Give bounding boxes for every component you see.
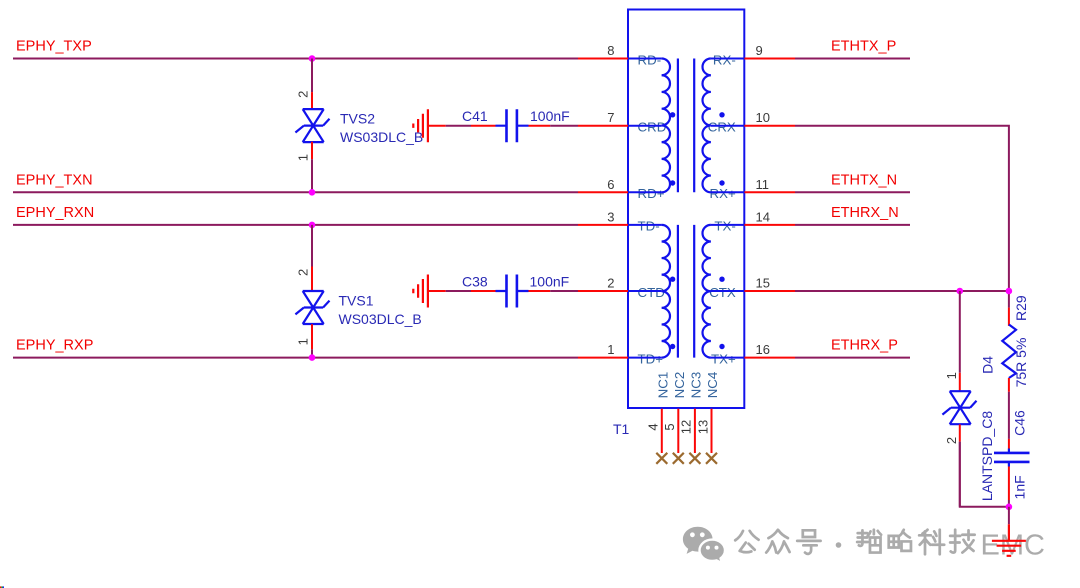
wire ETHTX_P — [795, 58, 910, 60]
svg-text:R29: R29 — [1013, 295, 1029, 321]
pin 7 of T1 — [578, 125, 628, 127]
chassis ground at C38 — [413, 275, 428, 308]
pin 6 of T1 — [578, 191, 628, 193]
svg-text:1: 1 — [944, 372, 959, 379]
svg-text:CRX: CRX — [708, 120, 736, 135]
junction node EPHY_TXN/TVS2 — [309, 189, 316, 196]
no-connect X on pin 12 — [689, 453, 700, 464]
capacitor C46 — [994, 453, 1030, 462]
polarity dot T1 — [719, 344, 724, 349]
pin 1 of T1 — [578, 357, 628, 359]
ground GND — [992, 524, 1026, 556]
corner pixel red — [0, 586, 1, 588]
svg-text:ETHTX_P: ETHTX_P — [831, 39, 896, 55]
polarity dot T1 — [670, 344, 675, 349]
wire pin10 to node A — [795, 126, 1009, 308]
TVS diode TVS1 — [295, 291, 329, 324]
winding TD (T1 left lower) — [662, 225, 670, 358]
pin 10 of T1 — [744, 125, 795, 127]
watermark text gongzhonghao taolue keji — [735, 530, 974, 554]
core of T1 upper — [678, 59, 694, 193]
svg-text:WS03DLC_B: WS03DLC_B — [339, 311, 422, 327]
svg-text:16: 16 — [756, 342, 770, 357]
svg-text:14: 14 — [756, 209, 770, 224]
svg-text:2: 2 — [296, 91, 311, 98]
resistor R29 — [1002, 325, 1016, 379]
corner pixel green — [1, 586, 2, 588]
wire R29-C46 — [1008, 392, 1010, 439]
pin 14 of T1 — [744, 224, 795, 226]
svg-text:1: 1 — [296, 154, 311, 161]
svg-text:NC4: NC4 — [705, 372, 720, 399]
svg-text:EPHY_TXN: EPHY_TXN — [16, 172, 93, 188]
svg-text:3: 3 — [607, 209, 614, 224]
wire TVS1 bottom — [311, 349, 313, 357]
svg-text:TVS2: TVS2 — [340, 111, 375, 127]
pin 13 of T1 (NC) — [711, 409, 713, 453]
svg-text:ETHTX_N: ETHTX_N — [831, 172, 897, 188]
svg-text:EPHY_TXP: EPHY_TXP — [16, 39, 92, 55]
svg-text:6: 6 — [607, 177, 614, 192]
pin 1 of R29 — [1008, 308, 1010, 326]
svg-text:CTX: CTX — [709, 285, 736, 300]
svg-text:9: 9 — [756, 43, 763, 58]
watermark wechat icon — [683, 527, 725, 564]
svg-text:RD+: RD+ — [638, 186, 665, 201]
svg-text:TD+: TD+ — [638, 351, 664, 366]
polarity dot T1 — [670, 112, 675, 117]
svg-text:D4: D4 — [980, 356, 996, 374]
svg-text:CRD: CRD — [638, 120, 667, 135]
polarity dot T1 — [670, 180, 675, 185]
polarity dot T1 — [719, 112, 724, 117]
wire ETHTX_N — [795, 191, 910, 193]
junction node EPHY_RXN/TVS1 — [309, 222, 316, 229]
pin 12 of T1 (NC) — [694, 409, 696, 453]
winding TX (T1 right lower) — [703, 225, 711, 358]
svg-text:TX+: TX+ — [711, 351, 736, 366]
wire D4 top — [959, 291, 961, 373]
wire TVS2 bottom — [311, 159, 313, 192]
pin 5 of T1 (NC) — [677, 409, 679, 453]
pin of ground C41 — [428, 125, 446, 127]
pin 1 of D4 — [959, 373, 961, 391]
pin 4 of T1 (NC) — [661, 409, 663, 453]
wire ETHRX_N — [795, 224, 910, 226]
svg-text:C46: C46 — [1012, 410, 1028, 436]
no-connect X on pin 5 — [673, 453, 684, 464]
wire pin15 to node A — [795, 290, 1009, 292]
svg-text:CTD: CTD — [638, 285, 665, 300]
chassis ground at C41 — [413, 109, 428, 142]
pin 2 of T1 — [578, 290, 628, 292]
wire D4 bottom — [959, 442, 961, 507]
svg-text:1nF: 1nF — [1012, 475, 1028, 499]
wire EPHY_TXP — [13, 58, 578, 60]
wire C46 bottom — [1008, 500, 1010, 507]
svg-text:2: 2 — [296, 269, 311, 276]
polarity dot T1 — [719, 277, 724, 282]
pin 2 of C46 — [1008, 467, 1010, 501]
junction node B (pin15/D4) — [957, 288, 964, 295]
svg-text:T1: T1 — [613, 421, 630, 437]
svg-text:5: 5 — [662, 423, 677, 430]
pin 3 of T1 — [578, 224, 628, 226]
wire C38-T1 — [550, 290, 578, 292]
junction node EPHY_RXP/TVS1 — [309, 354, 316, 361]
wire ETHRX_P — [795, 357, 910, 359]
pin 2 of C38 — [529, 290, 551, 292]
wire TVS2 top — [311, 59, 313, 93]
svg-text:100nF: 100nF — [530, 273, 570, 289]
svg-text:EPHY_RXN: EPHY_RXN — [16, 205, 94, 221]
wire EPHY_RXP — [13, 357, 578, 359]
pin 1 of TVS2 — [311, 142, 313, 160]
svg-text:C41: C41 — [462, 108, 488, 124]
wire TVS1 top — [311, 225, 313, 267]
transformer internal pin stubs — [628, 59, 744, 358]
svg-text:11: 11 — [756, 177, 770, 192]
svg-text:TX-: TX- — [714, 219, 735, 234]
capacitor C41 — [507, 109, 517, 142]
polarity dot T1 — [719, 180, 724, 185]
pin 1 of C41 — [471, 125, 496, 127]
no-connect X on pin 4 — [656, 453, 667, 464]
svg-text:WS03DLC_B: WS03DLC_B — [340, 129, 423, 145]
pin 1 of C46 — [1008, 439, 1010, 449]
wire EPHY_TXN — [13, 191, 578, 193]
svg-text:13: 13 — [695, 420, 710, 434]
pin 16 of T1 — [744, 357, 795, 359]
svg-text:12: 12 — [679, 420, 694, 434]
transformer T1 body — [628, 10, 744, 409]
svg-text:7: 7 — [607, 110, 614, 125]
svg-text:RX+: RX+ — [710, 186, 736, 201]
wire ground-C38 — [446, 290, 471, 292]
pin 2 of C41 — [529, 125, 551, 127]
svg-text:TD-: TD- — [638, 219, 660, 234]
svg-text:1: 1 — [296, 338, 311, 345]
winding RX (T1 right upper) — [703, 59, 711, 193]
svg-text:ETHRX_N: ETHRX_N — [831, 205, 899, 221]
pin of ground C38 — [428, 290, 446, 292]
svg-text:LANTSPD_C8: LANTSPD_C8 — [979, 411, 995, 501]
svg-text:NC1: NC1 — [656, 372, 671, 399]
corner pixel blue — [3, 586, 4, 588]
pin 1 of C38 — [471, 290, 496, 292]
pin 9 of T1 — [744, 58, 795, 60]
svg-text:8: 8 — [607, 43, 614, 58]
svg-text:C38: C38 — [462, 273, 488, 289]
wire ground-C41 — [446, 125, 471, 127]
svg-text:100nF: 100nF — [530, 108, 570, 124]
pin 2 of TVS1 — [311, 267, 313, 291]
winding RD (T1 left upper) — [662, 59, 670, 193]
svg-text:NC2: NC2 — [672, 372, 687, 399]
wire to ground — [1008, 507, 1010, 524]
svg-text:RD-: RD- — [638, 52, 662, 67]
wire bottom join — [960, 442, 1009, 507]
pin 11 of T1 — [744, 191, 795, 193]
svg-text:4: 4 — [646, 423, 661, 430]
junction node A (pin15/R29) — [1006, 288, 1013, 295]
pin 2 of D4 — [959, 424, 961, 441]
TVS diode D4 — [942, 391, 976, 424]
svg-text:75R 5%: 75R 5% — [1013, 338, 1029, 388]
svg-text:1: 1 — [607, 342, 614, 357]
wire EPHY_RXN — [13, 224, 578, 226]
svg-text:EPHY_RXP: EPHY_RXP — [16, 338, 93, 354]
junction node C (bottom/GND) — [1006, 504, 1013, 511]
svg-text:15: 15 — [756, 276, 770, 291]
pin 8 of T1 — [578, 58, 628, 60]
svg-text:ETHRX_P: ETHRX_P — [831, 338, 898, 354]
pin 15 of T1 — [744, 290, 795, 292]
no-connect X on pin 13 — [706, 453, 717, 464]
wire C41-T1 — [550, 125, 578, 127]
junction node EPHY_TXP/TVS2 — [309, 55, 316, 62]
pin 2 of TVS2 — [311, 92, 313, 109]
pin 1 of TVS1 — [311, 324, 313, 349]
core of T1 lower — [678, 225, 694, 358]
svg-text:10: 10 — [756, 110, 770, 125]
pin 2 of R29 — [1008, 378, 1010, 392]
svg-text:2: 2 — [944, 437, 959, 444]
polarity dot T1 — [670, 277, 675, 282]
svg-text:NC3: NC3 — [689, 372, 704, 399]
svg-text:TVS1: TVS1 — [339, 293, 374, 309]
TVS diode TVS2 — [295, 109, 329, 142]
svg-text:RX-: RX- — [713, 52, 736, 67]
capacitor C38 — [507, 275, 517, 308]
svg-text:2: 2 — [607, 276, 614, 291]
